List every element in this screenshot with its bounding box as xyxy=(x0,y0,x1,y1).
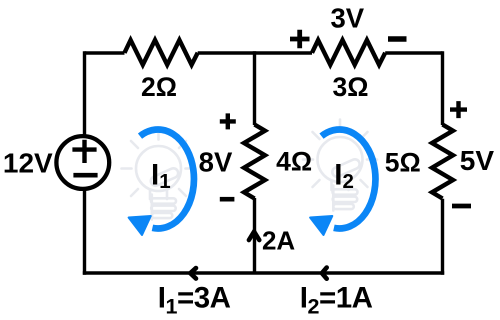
wire: top left segment xyxy=(85,51,125,54)
lightbulb icon loop 2 xyxy=(303,120,377,211)
svg-text:4Ω: 4Ω xyxy=(276,147,312,177)
minus sign 8V bottom xyxy=(220,197,235,202)
voltage source V1 circle xyxy=(56,136,109,189)
lightbulb icon loop 1 xyxy=(122,129,196,220)
plus sign 8V top xyxy=(220,113,236,129)
svg-text:2A: 2A xyxy=(262,225,295,255)
wire: right upper (top to 5ohm) xyxy=(441,51,444,125)
bottom current arrow right (I2=1A) xyxy=(322,268,327,279)
bottom current arrow left (I1=3A) xyxy=(190,268,196,279)
wire: right lower (5ohm to bottom) xyxy=(441,199,444,275)
svg-text:5V: 5V xyxy=(460,145,495,176)
svg-text:3Ω: 3Ω xyxy=(333,72,369,102)
svg-text:5Ω: 5Ω xyxy=(385,147,421,177)
wire: left lower (source to bottom) xyxy=(83,189,86,275)
svg-text:12V: 12V xyxy=(3,147,53,178)
minus sign 3V right xyxy=(388,36,407,41)
wire: top right segment xyxy=(385,51,442,54)
wire: left upper (corner to source) xyxy=(83,51,86,136)
wire: middle lower (4ohm to bottom) xyxy=(253,198,256,273)
plus sign 3V left xyxy=(290,30,310,49)
wire: middle upper (top to 4ohm) xyxy=(253,51,256,125)
resistor 4ohm zigzag (vertical) xyxy=(244,125,265,199)
voltage source minus sign xyxy=(73,173,97,178)
plus sign 5V top xyxy=(450,101,467,118)
resistor 3ohm zigzag xyxy=(312,40,385,65)
svg-text:3V: 3V xyxy=(330,2,364,33)
minus sign 5V bottom xyxy=(452,204,471,209)
svg-text:8V: 8V xyxy=(199,146,233,177)
resistor 2ohm zigzag xyxy=(125,40,198,65)
voltage source plus sign xyxy=(72,140,96,163)
mesh current arrow I2 (blue swirl) xyxy=(310,129,375,235)
wire: bottom rail xyxy=(83,271,444,274)
resistor 5ohm zigzag (vertical) xyxy=(432,125,453,199)
wire: top middle segment xyxy=(198,51,312,54)
svg-text:2Ω: 2Ω xyxy=(141,72,177,102)
mesh current arrow I1 (blue swirl) xyxy=(129,129,194,235)
branch current arrow 2A (up) xyxy=(249,232,259,241)
